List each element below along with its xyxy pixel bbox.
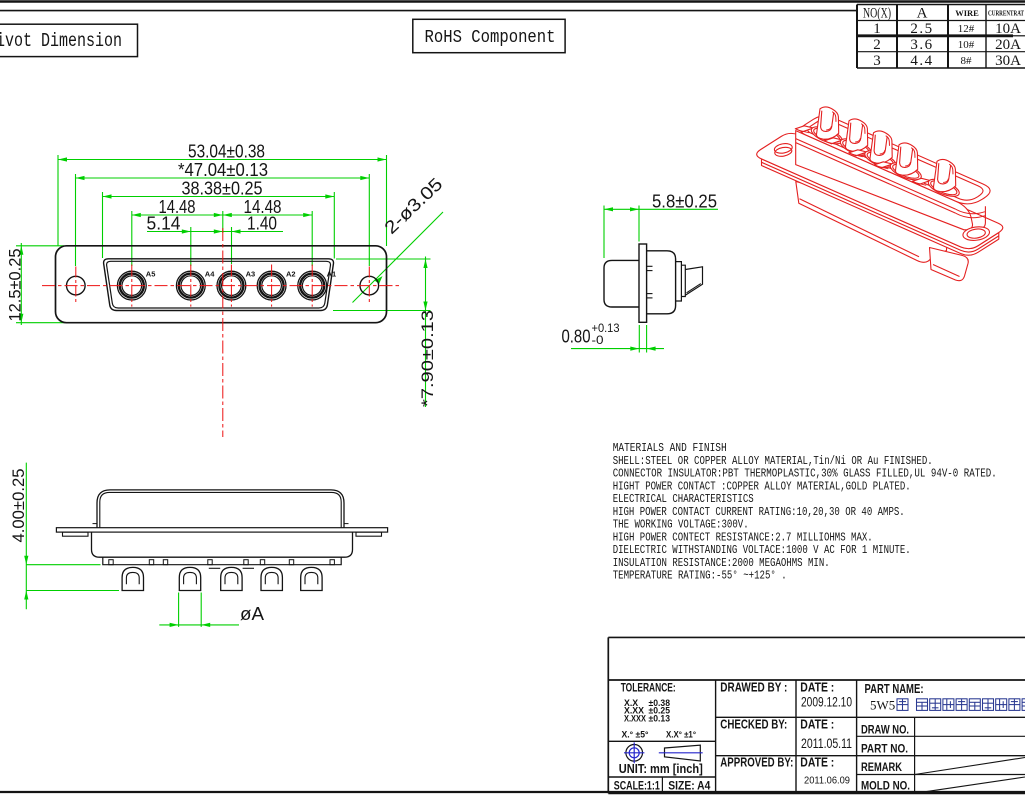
svg-text:*47.04±0.13: *47.04±0.13 (178, 160, 268, 180)
svg-text:12.5±0.25: 12.5±0.25 (7, 249, 25, 322)
black profile (604, 244, 703, 322)
svg-text:3: 3 (873, 53, 881, 69)
part name line: 5W5 + CJK glyphs (870, 698, 895, 713)
green dims (26, 463, 239, 627)
svg-text:53.04±0.38: 53.04±0.38 (188, 142, 265, 162)
svg-text:DATE :: DATE : (800, 756, 834, 770)
svg-text:5.14: 5.14 (147, 214, 181, 234)
green dims (571, 206, 718, 353)
svg-text:UNIT: mm [inch]: UNIT: mm [inch] (619, 761, 703, 776)
svg-text:8#: 8# (961, 55, 973, 67)
black drawing (56, 490, 387, 568)
pivot dimension box (0, 24, 138, 56)
svg-text:4.4: 4.4 (910, 53, 933, 69)
shell inner (100, 492, 341, 527)
svg-text:20A: 20A (995, 37, 1021, 53)
svg-text:2011.05.11: 2011.05.11 (801, 736, 852, 751)
svg-text:RoHS Component: RoHS Component (425, 28, 556, 48)
RoHS component box (413, 19, 565, 52)
svg-text:A5: A5 (146, 269, 156, 278)
svg-text:3.6: 3.6 (910, 37, 933, 53)
svg-text:TEMPERATURE RATING:-55° ~+125°: TEMPERATURE RATING:-55° ~+125° . (613, 569, 787, 583)
svg-text:CURRENTRAT: CURRENTRAT (988, 9, 1024, 17)
svg-text:PART NO.: PART NO. (861, 741, 908, 755)
lip details (647, 265, 653, 267)
shell outer (97, 490, 344, 528)
pin3 side ticks (209, 567, 220, 569)
svg-text:2.5: 2.5 (910, 21, 933, 37)
svg-text:10A: 10A (995, 21, 1021, 37)
contacts (117, 271, 326, 300)
placeholder groups (7, 142, 447, 438)
svg-text:30A: 30A (995, 53, 1021, 69)
green arrowheads (19, 157, 427, 322)
svg-text:TOLERANCE:: TOLERANCE: (621, 680, 676, 694)
svg-text:X.XXX: X.XXX (624, 713, 646, 723)
red centerlines (42, 228, 402, 437)
svg-text:SCALE:1:1: SCALE:1:1 (614, 781, 660, 793)
svg-text:5W5: 5W5 (870, 698, 895, 713)
flange (56, 528, 387, 532)
svg-text:SIZE: A4: SIZE: A4 (668, 781, 711, 793)
svg-text:5.8±0.25: 5.8±0.25 (652, 191, 717, 211)
rear shell (604, 260, 639, 307)
small tabs (109, 560, 335, 565)
flange plate (639, 244, 647, 322)
svg-text:Pivot Dimension: Pivot Dimension (0, 30, 122, 52)
pins (122, 567, 322, 590)
diagonal slashes (915, 758, 1025, 775)
extension lines (57, 155, 59, 246)
svg-text:DRAWED BY :: DRAWED BY : (720, 680, 787, 694)
svg-text:A3: A3 (246, 269, 256, 278)
svg-text:4.00±0.25: 4.00±0.25 (10, 469, 28, 543)
green dimension lines (16, 155, 443, 407)
svg-text:APPROVED BY:: APPROVED BY: (720, 756, 793, 770)
dimension texts (7, 142, 447, 408)
shell base flare ticks (93, 523, 98, 525)
svg-text:2-ø3.05: 2-ø3.05 (380, 174, 446, 238)
svg-text:10#: 10# (958, 39, 975, 51)
svg-text:X.X° ±1°: X.X° ±1° (666, 729, 696, 740)
dates (blue) (801, 694, 852, 786)
body below flange (92, 532, 353, 557)
svg-text:DATE :: DATE : (800, 718, 834, 732)
svg-text:2009.12.10: 2009.12.10 (801, 694, 852, 709)
3D mounting hole right (962, 225, 990, 242)
svg-text:A1: A1 (327, 269, 337, 278)
svg-text:CHECKED BY:: CHECKED BY: (720, 718, 787, 732)
svg-text:+0.13: +0.13 (592, 323, 620, 335)
svg-text:A2: A2 (286, 269, 296, 278)
svg-text:0.80: 0.80 (562, 327, 591, 347)
svg-text:12#: 12# (958, 23, 975, 35)
base strip (103, 557, 341, 565)
svg-text:2: 2 (873, 37, 881, 53)
black connector body (56, 246, 387, 323)
svg-text:WIRE: WIRE (955, 8, 979, 18)
svg-text:A: A (917, 5, 928, 21)
leader 2-o3.05 (353, 212, 444, 303)
svg-text:REMARK: REMARK (861, 760, 902, 774)
svg-text:1.40: 1.40 (247, 214, 277, 234)
3D mounting hole left (774, 142, 793, 154)
svg-text:38.38±0.25: 38.38±0.25 (182, 179, 263, 199)
3D isometric connector view (757, 107, 1003, 281)
svg-text:MOLD NO.: MOLD NO. (861, 779, 910, 793)
3D flange plate thickness (762, 159, 999, 255)
red contact labels (146, 269, 336, 278)
svg-text:1: 1 (873, 21, 881, 37)
front shell (647, 251, 676, 314)
3D rear insulator block (796, 182, 948, 263)
svg-text:øA: øA (240, 604, 264, 624)
tolerance texts (614, 680, 924, 792)
svg-text:DATE :: DATE : (800, 680, 834, 694)
3D rear step boxlet (930, 248, 969, 281)
svg-text:2011.06.09: 2011.06.09 (804, 775, 850, 786)
svg-text:NO(X): NO(X) (863, 6, 891, 22)
svg-text:A4: A4 (205, 269, 215, 278)
svg-text:X.° ±5°: X.° ±5° (622, 729, 649, 740)
svg-text:DRAW NO.: DRAW NO. (861, 722, 909, 736)
svg-text:±0.13: ±0.13 (649, 713, 671, 723)
insulator steps (676, 262, 682, 301)
projection symbol (624, 742, 703, 763)
svg-text:-0: -0 (592, 335, 604, 347)
7.90 dim (336, 258, 431, 260)
12.5 dim (20, 243, 22, 325)
solder pot (685, 267, 702, 295)
svg-text:PART NAME:: PART NAME: (865, 682, 924, 696)
svg-text:*7.90±0.13: *7.90±0.13 (419, 310, 437, 407)
